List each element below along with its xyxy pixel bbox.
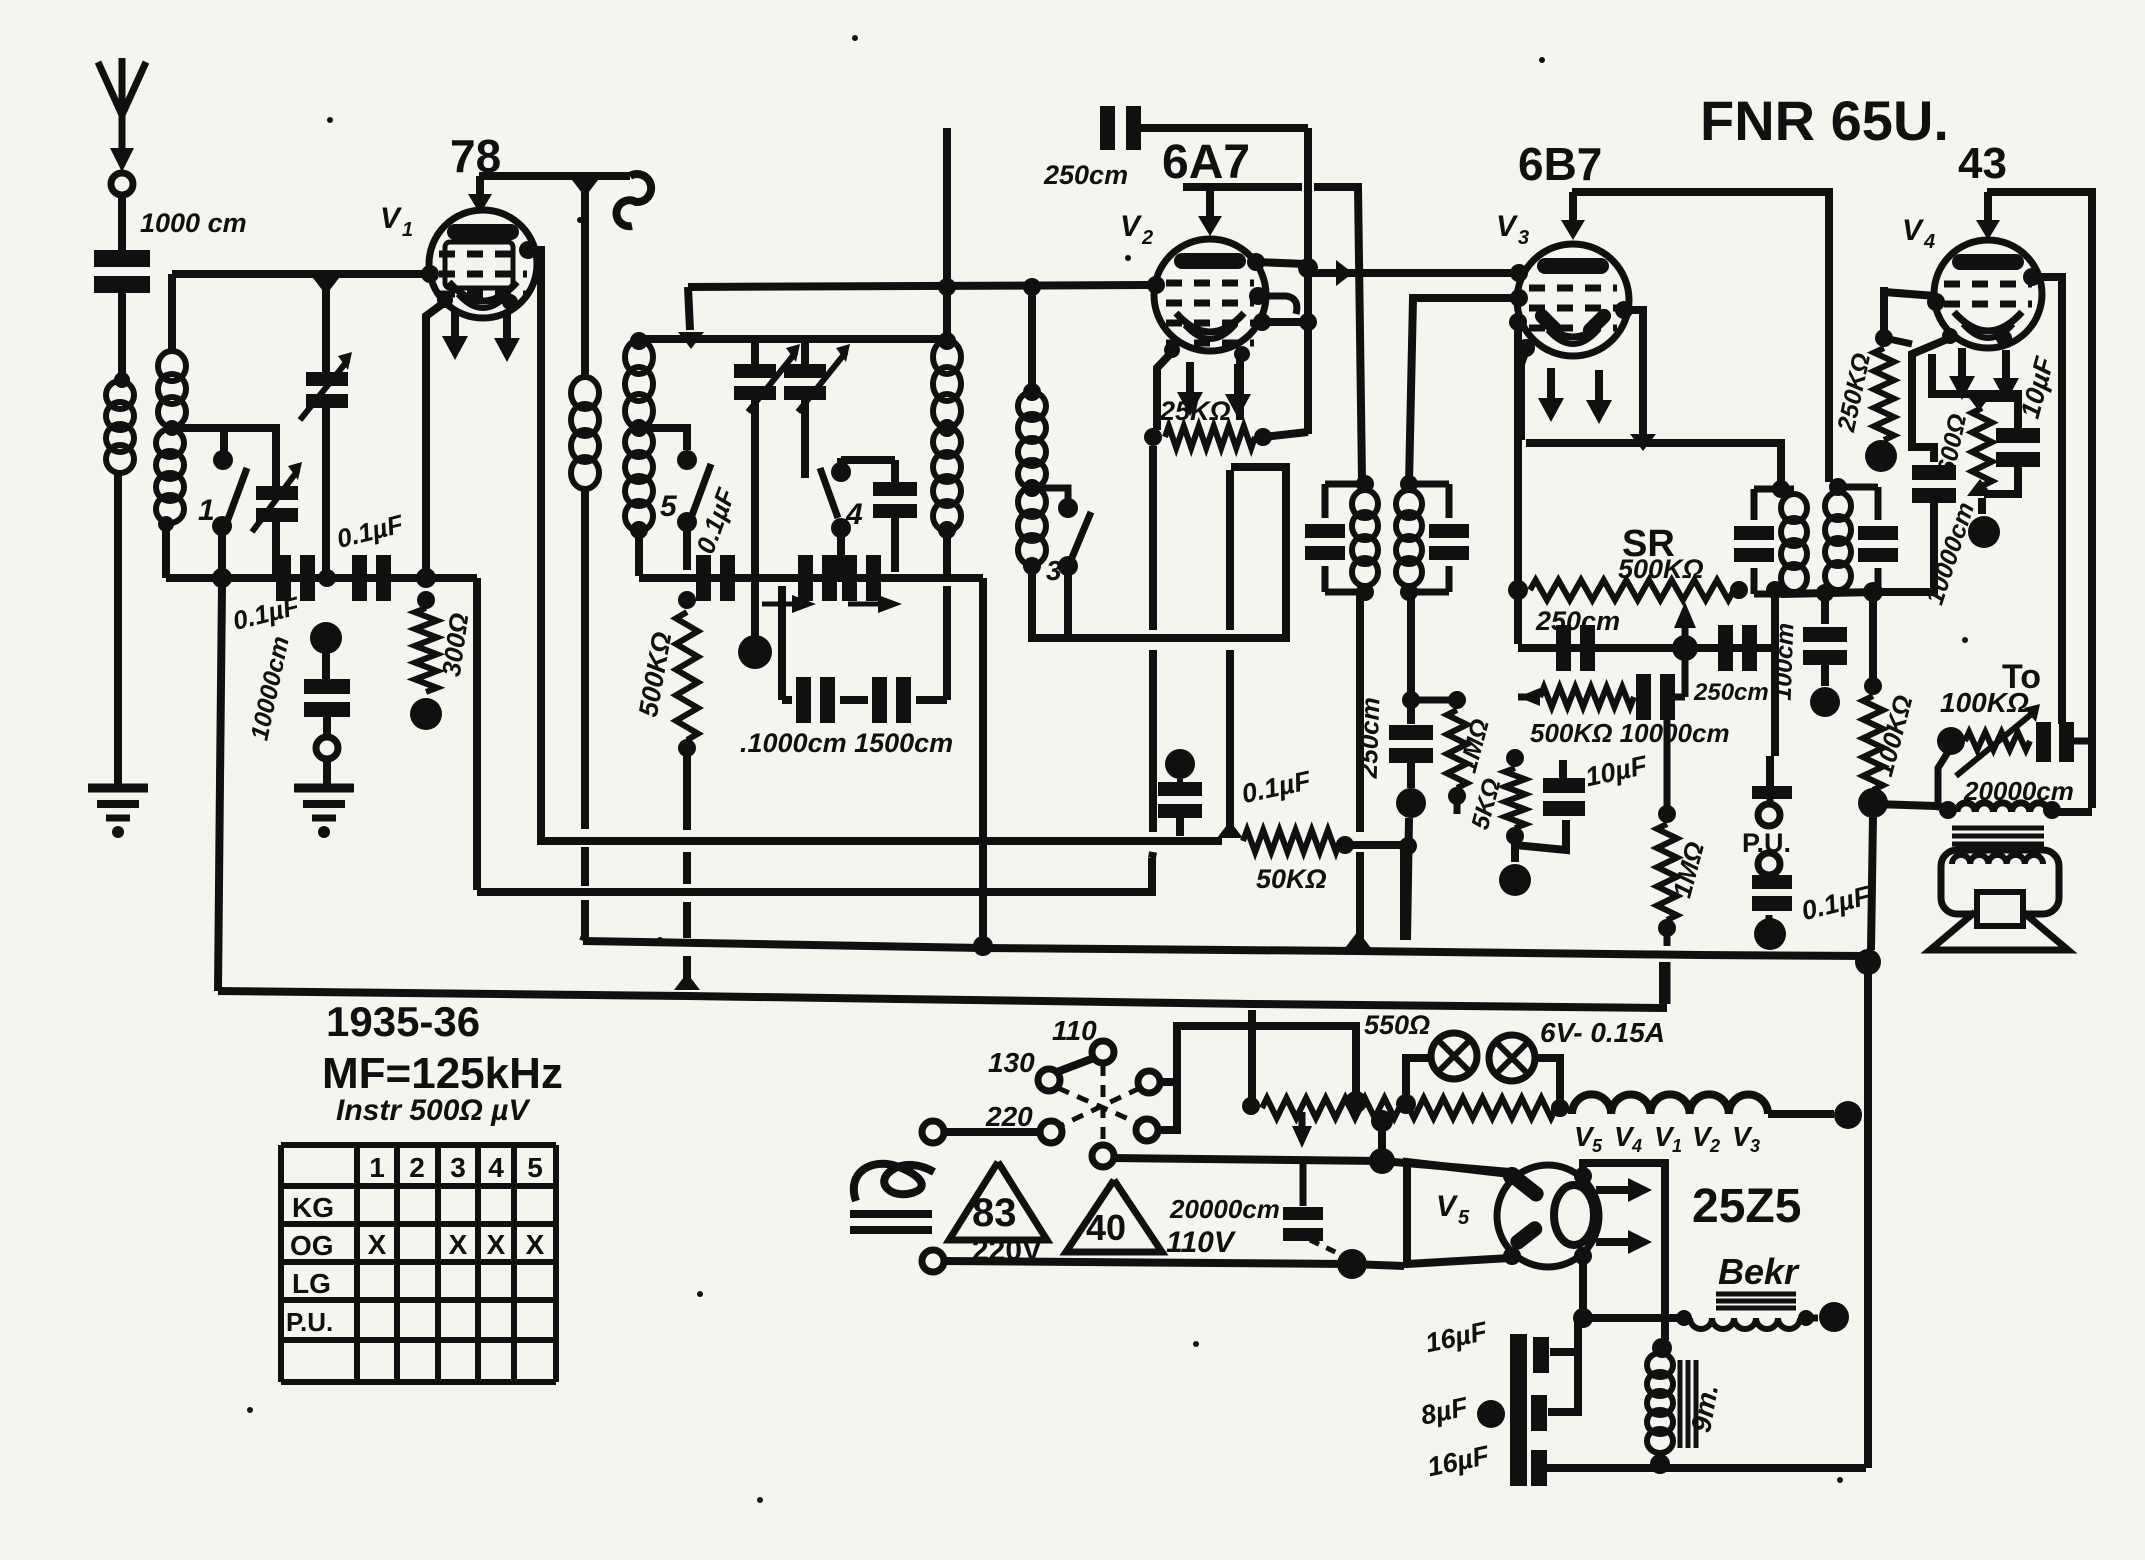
heater arrow V3 b <box>1586 370 1612 424</box>
wire grid to L2 <box>168 274 176 352</box>
table row PU <box>286 1307 333 1337</box>
svg-text:6B7: 6B7 <box>1518 138 1602 190</box>
pin V3 g2 <box>1510 289 1528 307</box>
pin V4 k1 <box>1942 328 1958 344</box>
blob PU <box>1754 915 1786 950</box>
wire left column <box>218 586 222 991</box>
svg-text:43: 43 <box>1958 139 2007 188</box>
junction x1230 busA <box>1217 821 1243 838</box>
label SR <box>1622 523 1675 565</box>
label 9m <box>1685 1382 1724 1435</box>
V5 arrow top <box>1596 1178 1652 1202</box>
svg-text:1000 cm: 1000 cm <box>140 208 247 238</box>
wire V3 right down <box>1624 310 1643 436</box>
label 50K <box>1256 864 1327 894</box>
wire SR col down <box>1514 598 1522 644</box>
wire IF2 bottom down <box>1407 592 1415 724</box>
wire x1153 down <box>1152 446 1153 858</box>
svg-text:110: 110 <box>1052 1015 1097 1046</box>
wire terminal to ground <box>323 759 331 784</box>
capacitor 10000cm <box>304 679 350 717</box>
capacitor 250cm IF2 <box>1389 725 1433 763</box>
wire plate V1 top <box>479 172 630 180</box>
svg-text:220: 220 <box>985 1101 1033 1132</box>
pot 550 resistor <box>1242 1097 1569 1118</box>
scan specks <box>247 35 1968 1503</box>
junction sw1-node <box>212 568 232 588</box>
svg-text:20000cm: 20000cm <box>1169 1194 1280 1224</box>
svg-text:3: 3 <box>450 1152 466 1183</box>
wire 16uF top link <box>1550 1318 1583 1352</box>
wire cathode to Bekr <box>1583 1314 1678 1322</box>
lower cap stub left <box>778 586 786 700</box>
svg-text:.1000cm 1500cm: .1000cm 1500cm <box>740 728 953 758</box>
label 250K <box>1832 351 1876 435</box>
line F mains to V5 <box>943 1261 1404 1266</box>
svg-text:V: V <box>1436 1190 1459 1223</box>
line E selector to V5 <box>1113 1158 1510 1172</box>
wire V1 cathode down <box>426 302 445 576</box>
label 6V 0.15A <box>1540 1017 1665 1048</box>
table row KG <box>292 1192 334 1223</box>
wire V5 box <box>1407 1162 1510 1264</box>
IF4 can <box>1825 478 1898 592</box>
capacitor 1000cm <box>94 250 150 293</box>
svg-text:1: 1 <box>402 219 413 241</box>
switch 5 top contact <box>677 450 697 470</box>
label 1M PU <box>1667 839 1711 901</box>
speaker frame <box>1941 850 2059 914</box>
blob 5K <box>1499 844 1531 896</box>
wire blob to C10000 <box>322 652 330 682</box>
svg-text:25KΩ: 25KΩ <box>1159 396 1231 426</box>
wire audio to transformer <box>1873 804 1948 808</box>
svg-text:250cm: 250cm <box>1535 606 1620 636</box>
wire 8uF link <box>1548 1352 1578 1412</box>
arrow osc c <box>848 595 902 613</box>
svg-text:25Z5: 25Z5 <box>1692 1180 1801 1233</box>
svg-text:X: X <box>449 1229 468 1260</box>
label 78 <box>450 130 501 182</box>
pin V5 tr <box>1574 1167 1592 1185</box>
wire sw4 down <box>837 536 845 576</box>
blob Bekr <box>1806 1302 1849 1332</box>
node L2 bottom <box>158 516 174 532</box>
junction 9m bottom <box>1650 1450 1670 1474</box>
label 250cm SRb <box>1693 679 1769 706</box>
svg-text:X: X <box>487 1229 506 1260</box>
ground 1 <box>88 788 148 838</box>
IF1 can <box>1305 475 1378 601</box>
wire bus-row stub <box>688 287 690 330</box>
V5 arrow bottom <box>1596 1230 1652 1254</box>
wire plate V2 b <box>1314 187 1362 480</box>
capacitor padder cap <box>873 460 917 572</box>
wire lamps right <box>1535 1058 1560 1100</box>
capacitor 10000 SR <box>1636 660 1685 720</box>
label 500K 10000cm <box>1530 718 1730 748</box>
label To <box>2002 658 2041 696</box>
node coil4 top <box>630 332 648 350</box>
coil L2b <box>156 429 184 523</box>
heater arrow V1 a <box>442 312 468 360</box>
svg-text:3: 3 <box>1046 555 1062 586</box>
wire V5 box top <box>1403 1159 1411 1186</box>
label V2 <box>1120 210 1153 249</box>
pin V4 right <box>2023 268 2041 286</box>
svg-text:40: 40 <box>1086 1207 1126 1248</box>
PU terminal 2 <box>1758 853 1780 875</box>
wire 500K down3 <box>683 902 691 938</box>
node coil4 bottom <box>630 521 648 539</box>
pin V2 grid <box>1147 276 1165 294</box>
svg-text:3: 3 <box>1750 1136 1760 1156</box>
wire L2 to nodeline <box>162 524 170 578</box>
selector circle bottom <box>1092 1145 1114 1167</box>
wire V3 grid row <box>1308 260 1519 286</box>
label 10uF V4 <box>2015 352 2060 421</box>
pin V2 g4 <box>1253 313 1271 331</box>
band table grid <box>281 1145 556 1382</box>
wire trimmer2 to nodeline <box>272 522 280 578</box>
label V3 <box>1496 210 1529 249</box>
label Instr <box>336 1094 531 1127</box>
switch 5 stub <box>639 428 687 450</box>
wire sw3 down <box>1064 574 1072 638</box>
svg-text:220V: 220V <box>972 1234 1042 1267</box>
resistor 250K <box>1865 287 1897 472</box>
wire osc coil2 top <box>1023 278 1041 390</box>
svg-text:OG: OG <box>290 1230 334 1261</box>
heater arrow V4 a <box>1949 348 1975 400</box>
svg-text:1: 1 <box>1672 1136 1682 1156</box>
label 220 <box>985 1101 1033 1132</box>
vertical x1308 <box>1304 128 1312 434</box>
mains terminal 2 <box>922 1250 944 1272</box>
capacitor osc b <box>798 555 837 601</box>
label 0.1uF PU <box>1798 880 1874 926</box>
wire 10uF top <box>1559 760 1567 778</box>
wire V5 cathode down <box>1579 1256 1587 1318</box>
capacitor osc a <box>696 555 735 601</box>
svg-text:250cm: 250cm <box>1693 679 1769 706</box>
wire L3 down 3 <box>583 900 585 941</box>
wire V4 right pin <box>2032 277 2062 724</box>
wire V3 k down <box>1521 350 1526 440</box>
svg-text:83: 83 <box>972 1191 1017 1235</box>
wire x983 down <box>947 578 983 940</box>
label V5 <box>1436 1190 1470 1229</box>
junction right bus <box>1855 949 1881 975</box>
wire V4 k down <box>1932 354 2018 428</box>
svg-text:5: 5 <box>1592 1136 1603 1156</box>
capacitor 250cm SR <box>1556 625 1595 671</box>
node SR left <box>1508 580 1528 600</box>
switch 1 stub <box>220 428 228 452</box>
svg-text:500KΩ: 500KΩ <box>1618 554 1704 584</box>
wire 10uF V4 bottom <box>1984 466 2018 494</box>
resistor 100K <box>1858 592 1888 818</box>
capacitor 10uF V3 <box>1543 778 1585 816</box>
junction cathode node <box>416 568 436 588</box>
junction 9m top <box>1652 1338 1672 1358</box>
wire T1 down <box>751 400 759 576</box>
wire 500K down <box>683 748 691 830</box>
capacitor 0.1uF a <box>276 555 315 601</box>
speaker magnet <box>1977 892 2023 926</box>
svg-text:6V- 0.15A: 6V- 0.15A <box>1540 1017 1665 1048</box>
capacitor low a <box>782 677 868 723</box>
junction 600 bottom <box>1967 479 1993 496</box>
svg-text:4: 4 <box>845 498 863 531</box>
row 648 <box>1518 644 1775 652</box>
label 3 <box>1046 555 1062 586</box>
label 0.1uF V2 <box>1239 765 1315 809</box>
capacitor 100cm <box>1803 593 1847 686</box>
svg-text:100cm: 100cm <box>1769 622 1800 701</box>
osc cap row <box>639 574 947 582</box>
antenna terminal <box>111 173 133 195</box>
wire tap to trimmer <box>172 428 276 486</box>
pin V4 grid <box>1927 293 1945 311</box>
heater arrow V1 b <box>494 314 520 362</box>
pin V1 grid <box>421 265 439 283</box>
svg-text:P.U.: P.U. <box>286 1307 333 1337</box>
svg-text:2: 2 <box>1709 1136 1720 1156</box>
label 500K <box>633 630 677 720</box>
wire V1 screen right <box>528 250 541 832</box>
selector circle 220 <box>1040 1121 1062 1143</box>
label 250cm IF2 <box>1353 697 1386 780</box>
table row LG <box>292 1268 331 1299</box>
svg-text:2: 2 <box>409 1152 425 1183</box>
label 4 <box>845 498 863 531</box>
selector circle 130 <box>1038 1069 1060 1091</box>
wire V2 k2 down <box>1236 356 1244 420</box>
wire 250K node <box>1884 338 1912 344</box>
junction IF1 lineC <box>1345 931 1371 948</box>
pin V3 g3 <box>1509 313 1527 331</box>
capacitor SRb <box>1718 625 1757 671</box>
capacitor osc c <box>842 555 881 601</box>
resistor 1M PU <box>1657 805 1677 937</box>
selector dash b <box>1060 1088 1140 1126</box>
pin V5 bl <box>1503 1247 1521 1265</box>
table row OG <box>290 1230 334 1261</box>
selector circle R2 <box>1136 1119 1158 1141</box>
node coil5 mid <box>938 419 956 437</box>
label 10000cm <box>245 634 294 743</box>
table X marks <box>368 1229 545 1260</box>
blob lineF <box>1337 1249 1367 1279</box>
junction plate V1 <box>572 180 598 197</box>
wire V5 plate top <box>1583 1163 1665 1340</box>
resistor 5K <box>1505 749 1525 845</box>
line C <box>583 941 1868 956</box>
junction row338 <box>678 332 704 349</box>
resistor 25K <box>1144 426 1272 448</box>
label 20000cm To <box>1963 776 2074 806</box>
pin V3 right <box>1615 301 1633 319</box>
label 100cm <box>1769 622 1800 701</box>
ground 2 <box>294 788 354 838</box>
junction V3 right <box>1630 434 1656 451</box>
wire V2 g4 link <box>1262 313 1317 331</box>
Bekr coil <box>1676 1310 1814 1329</box>
capacitor 10000cm V4 <box>1880 338 1956 592</box>
svg-text:X: X <box>368 1229 387 1260</box>
coil L4a <box>625 340 653 428</box>
pin V1 k2 <box>502 294 518 310</box>
wire L3 down 2 <box>581 847 589 886</box>
switch 4 arm <box>820 468 838 518</box>
transformer secondary <box>1952 855 2043 864</box>
svg-text:V: V <box>1496 210 1519 243</box>
resistor 500K <box>676 591 698 757</box>
wire mains to 220 <box>944 1128 1040 1136</box>
terminal circle <box>316 737 338 759</box>
wire 500K down2 <box>683 852 691 884</box>
selector circle R1 <box>1138 1071 1160 1093</box>
wire 100K down <box>1871 816 1873 950</box>
heater arrow V2 a <box>1177 362 1203 416</box>
wire cap250 right <box>1139 124 1308 132</box>
svg-text:LG: LG <box>292 1268 331 1299</box>
IF3 can <box>1734 480 1807 594</box>
wire 1M PU bottom <box>1664 936 1671 1004</box>
speaker cone <box>1930 912 2068 950</box>
wire V4 grid row <box>1884 292 1936 296</box>
trimmer T2 <box>784 339 850 412</box>
tube V1 78 <box>429 210 537 318</box>
capacitor 10uF V4 <box>1996 428 2040 467</box>
PU terminal 1 <box>1758 756 1780 826</box>
label 250cm SR <box>1535 606 1620 636</box>
label 1000 cm <box>140 208 247 238</box>
wire selector right bracket <box>1160 1026 1356 1094</box>
pin V3 k <box>1517 339 1535 357</box>
svg-text:MF=125kHz: MF=125kHz <box>322 1049 563 1098</box>
wire plate V2 <box>1183 183 1302 191</box>
tube V4 43 <box>1934 240 2042 348</box>
9m core <box>1680 1360 1696 1448</box>
switch 4 bottom contact <box>831 518 851 538</box>
To pot arrow <box>1956 704 2040 776</box>
label Bekr <box>1718 1251 1800 1292</box>
wire nodeline down right <box>473 578 481 890</box>
wire x1230 down <box>1226 470 1234 832</box>
wire 1M PU top <box>1664 700 1671 810</box>
label 25K <box>1159 396 1231 426</box>
capacitor 0.1uF b <box>352 555 391 601</box>
capacitor PU bottom <box>1752 875 1792 911</box>
triangle 40 <box>1066 1180 1162 1252</box>
label 16uF top <box>1423 1316 1491 1359</box>
capacitor bank common plate <box>1510 1334 1527 1486</box>
heater choke <box>1551 1094 1768 1117</box>
svg-text:6A7: 6A7 <box>1162 136 1250 189</box>
label 110 <box>1052 1015 1097 1046</box>
pin V2 k1 <box>1164 342 1180 358</box>
wire C1 to L1 <box>114 293 130 388</box>
wire lamps left <box>1396 1058 1430 1114</box>
wire sw5 down <box>683 530 691 570</box>
svg-text:4: 4 <box>1631 1136 1642 1156</box>
wire V2 g3 hook <box>1258 296 1297 314</box>
svg-text:2: 2 <box>1141 227 1153 249</box>
wire V2 k1 down <box>1157 352 1172 430</box>
svg-text:250cm: 250cm <box>1043 160 1128 190</box>
svg-text:130: 130 <box>988 1047 1035 1078</box>
capacitor 20000cm <box>2036 722 2092 762</box>
resistor SR <box>1530 580 1748 600</box>
label 6A7 <box>1162 136 1250 189</box>
heater arrow V2 b <box>1225 364 1251 418</box>
svg-text:V: V <box>1120 210 1143 243</box>
label V1 <box>380 202 413 241</box>
capacitor 8uF plate <box>1531 1395 1547 1431</box>
triangle 83 <box>949 1162 1047 1240</box>
wire IF2 top to V3 <box>1409 298 1519 484</box>
antenna symbol <box>98 58 146 172</box>
blob IF2 <box>1396 762 1426 818</box>
wire SR right down <box>1766 581 1784 756</box>
pin V3 g1 <box>1510 264 1528 282</box>
svg-text:KG: KG <box>292 1192 334 1223</box>
arrow osc b <box>762 595 816 613</box>
junction grid node <box>313 278 339 295</box>
pin V1 k1 <box>437 292 453 308</box>
label 10000cm V4 <box>1921 499 1980 608</box>
label 1935-36 <box>326 998 480 1045</box>
label 43 <box>1958 139 2007 188</box>
coil L5b <box>933 427 961 531</box>
wire cap250 left <box>938 128 956 339</box>
pin V5 br <box>1574 1247 1592 1265</box>
dash 20000cm <box>1310 1240 1348 1258</box>
wire To blob down <box>1938 752 1948 804</box>
blob 600 <box>1968 498 2000 548</box>
junction pot feed <box>1345 1091 1367 1113</box>
label 250cm top <box>1043 160 1128 190</box>
coil 9 plate choke <box>616 174 651 226</box>
svg-text:50KΩ: 50KΩ <box>1256 864 1327 894</box>
mains plug <box>850 1164 934 1230</box>
capacitor 0.1uF V2 <box>1158 779 1202 836</box>
resistor 1M IF2 <box>1447 691 1467 805</box>
label 20000cm PS <box>1169 1194 1280 1224</box>
junction lineD <box>674 973 700 990</box>
wire antenna to C1 <box>118 195 126 252</box>
pin V5 tl <box>1503 1167 1521 1185</box>
capacitor 16uF top plate <box>1533 1337 1549 1373</box>
node coil4 mid <box>630 419 648 437</box>
mains terminal 1 <box>922 1121 944 1143</box>
label 1M IF2 <box>1454 716 1495 776</box>
switch 3 top contact <box>1058 498 1078 518</box>
coil L5a <box>933 332 961 428</box>
Bekr core <box>1716 1294 1796 1308</box>
wire IF1 bottom down <box>1356 592 1364 940</box>
blob To <box>1937 727 1965 755</box>
selector circle 110 <box>1092 1041 1114 1063</box>
line D <box>218 962 1663 1008</box>
row 638 <box>1032 467 1286 638</box>
label 1 <box>198 494 215 527</box>
label 5K <box>1466 775 1506 832</box>
heater arrow V3 a <box>1538 368 1564 422</box>
label .1000cm 1500cm <box>740 728 953 758</box>
